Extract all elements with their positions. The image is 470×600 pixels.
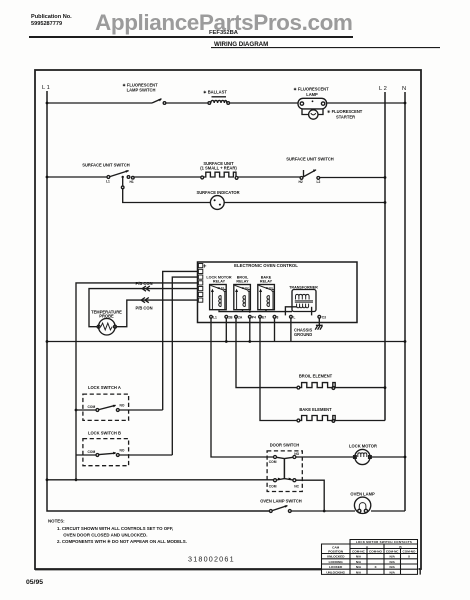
svg-text:LOCKING: LOCKING bbox=[329, 560, 344, 564]
svg-text:2A: 2A bbox=[238, 315, 243, 319]
svg-text:BLK1: BLK1 bbox=[218, 286, 225, 290]
svg-text:ELECTRONIC OVEN CONTROL: ELECTRONIC OVEN CONTROL bbox=[234, 263, 298, 268]
svg-text:NC: NC bbox=[294, 484, 299, 488]
svg-text:COM: COM bbox=[269, 484, 277, 488]
svg-text:318002061: 318002061 bbox=[188, 555, 235, 564]
svg-text:RELAY: RELAY bbox=[236, 280, 249, 284]
svg-text:COM-NC: COM-NC bbox=[386, 550, 399, 554]
svg-text:N/A: N/A bbox=[390, 570, 396, 574]
svg-text:FEF352BA: FEF352BA bbox=[209, 30, 239, 36]
svg-text:N/A: N/A bbox=[356, 565, 362, 569]
svg-text:E7: E7 bbox=[262, 315, 266, 319]
svg-text:BAKE ELEMENT: BAKE ELEMENT bbox=[299, 407, 332, 412]
svg-text:OVEN LAMP: OVEN LAMP bbox=[350, 491, 375, 496]
svg-text:UNLOCKED: UNLOCKED bbox=[327, 555, 345, 559]
svg-text:L1: L1 bbox=[213, 315, 217, 319]
svg-text:TRANSFORMER: TRANSFORMER bbox=[289, 285, 318, 289]
svg-text:N/A: N/A bbox=[390, 555, 396, 559]
svg-text:SURFACE UNIT SWITCH: SURFACE UNIT SWITCH bbox=[286, 157, 334, 162]
svg-text:SURFACE UNIT SWITCH: SURFACE UNIT SWITCH bbox=[82, 162, 130, 167]
svg-text:NO: NO bbox=[294, 452, 299, 456]
svg-text:2. COMPONENTS WITH ✳ DO NOT AP: 2. COMPONENTS WITH ✳ DO NOT APPEAR ON AL… bbox=[57, 539, 187, 544]
svg-text:L1: L1 bbox=[106, 180, 110, 184]
svg-text:N/A: N/A bbox=[390, 560, 396, 564]
svg-text:LAMP SWITCH: LAMP SWITCH bbox=[127, 87, 156, 92]
svg-text:COM: COM bbox=[88, 450, 96, 454]
svg-text:UNLOCKING: UNLOCKING bbox=[326, 570, 345, 574]
svg-text:COM-NO: COM-NO bbox=[403, 550, 416, 554]
svg-text:OVEN DOOR CLOSED AND UNLOCKED.: OVEN DOOR CLOSED AND UNLOCKED. bbox=[63, 532, 147, 537]
svg-text:✳ FLUORESCENT: ✳ FLUORESCENT bbox=[327, 109, 363, 114]
svg-text:LOCK MOTOR: LOCK MOTOR bbox=[349, 444, 377, 449]
svg-text:(1 SMALL + REAR): (1 SMALL + REAR) bbox=[200, 165, 237, 170]
svg-text:P/B CON: P/B CON bbox=[135, 281, 152, 286]
svg-text:L 1: L 1 bbox=[42, 85, 50, 91]
svg-text:✳ BALLAST: ✳ BALLAST bbox=[203, 90, 227, 95]
svg-text:N: N bbox=[402, 86, 406, 92]
svg-text:COM-NO: COM-NO bbox=[369, 550, 382, 554]
svg-text:5995287779: 5995287779 bbox=[31, 21, 62, 27]
svg-text:LAMP: LAMP bbox=[306, 92, 318, 97]
svg-text:STARTER: STARTER bbox=[336, 115, 355, 120]
svg-text:P/B CON: P/B CON bbox=[135, 306, 152, 311]
svg-text:1. CIRCUIT SHOWN WITH ALL CONT: 1. CIRCUIT SHOWN WITH ALL CONTROLS SET T… bbox=[57, 526, 173, 531]
svg-text:05/95: 05/95 bbox=[26, 579, 43, 586]
svg-text:N/A: N/A bbox=[356, 560, 362, 564]
svg-text:BROIL ELEMENT: BROIL ELEMENT bbox=[299, 374, 333, 379]
svg-text:H2: H2 bbox=[299, 180, 303, 184]
svg-text:DOOR SWITCH: DOOR SWITCH bbox=[270, 443, 300, 448]
svg-text:Publication No.: Publication No. bbox=[31, 14, 72, 20]
svg-text:NOTES:: NOTES: bbox=[48, 519, 65, 524]
svg-text:SURFACE INDICATOR: SURFACE INDICATOR bbox=[196, 190, 239, 195]
svg-text:L 2: L 2 bbox=[379, 86, 387, 92]
svg-text:BLK2: BLK2 bbox=[242, 286, 249, 290]
svg-text:BLK3: BLK3 bbox=[266, 286, 273, 290]
svg-text:LOCK MOTOR SWITCH CONTACTS: LOCK MOTOR SWITCH CONTACTS bbox=[356, 540, 412, 544]
svg-text:POSITION: POSITION bbox=[328, 549, 344, 553]
svg-text:2B: 2B bbox=[228, 315, 233, 319]
svg-text:L2: L2 bbox=[317, 180, 321, 184]
svg-text:✳ FLUORESCENT: ✳ FLUORESCENT bbox=[293, 87, 329, 92]
svg-text:COM: COM bbox=[269, 460, 277, 464]
svg-text:OVEN LAMP SWITCH: OVEN LAMP SWITCH bbox=[260, 498, 302, 503]
svg-text:N/A: N/A bbox=[356, 570, 362, 574]
svg-text:H1: H1 bbox=[130, 180, 134, 184]
svg-text:P4: P4 bbox=[252, 315, 256, 319]
svg-text:C3: C3 bbox=[322, 315, 326, 319]
svg-text:GROUND: GROUND bbox=[294, 332, 312, 337]
svg-text:N/A: N/A bbox=[356, 555, 362, 559]
svg-text:NO: NO bbox=[120, 449, 125, 453]
svg-text:COM: COM bbox=[88, 405, 96, 409]
svg-text:NO: NO bbox=[120, 404, 125, 408]
svg-text:N/A: N/A bbox=[390, 565, 396, 569]
svg-text:LOCK SWITCH B: LOCK SWITCH B bbox=[88, 431, 121, 436]
svg-text:RELAY: RELAY bbox=[213, 280, 226, 284]
svg-text:LOCK SWITCH A: LOCK SWITCH A bbox=[88, 385, 121, 390]
svg-text:WIRING DIAGRAM: WIRING DIAGRAM bbox=[214, 41, 268, 48]
svg-text:L: L bbox=[293, 315, 295, 319]
svg-text:LOCKED: LOCKED bbox=[329, 565, 343, 569]
svg-text:COM-NC: COM-NC bbox=[352, 550, 365, 554]
svg-text:RELAY: RELAY bbox=[260, 280, 273, 284]
svg-text:8: 8 bbox=[277, 315, 279, 319]
